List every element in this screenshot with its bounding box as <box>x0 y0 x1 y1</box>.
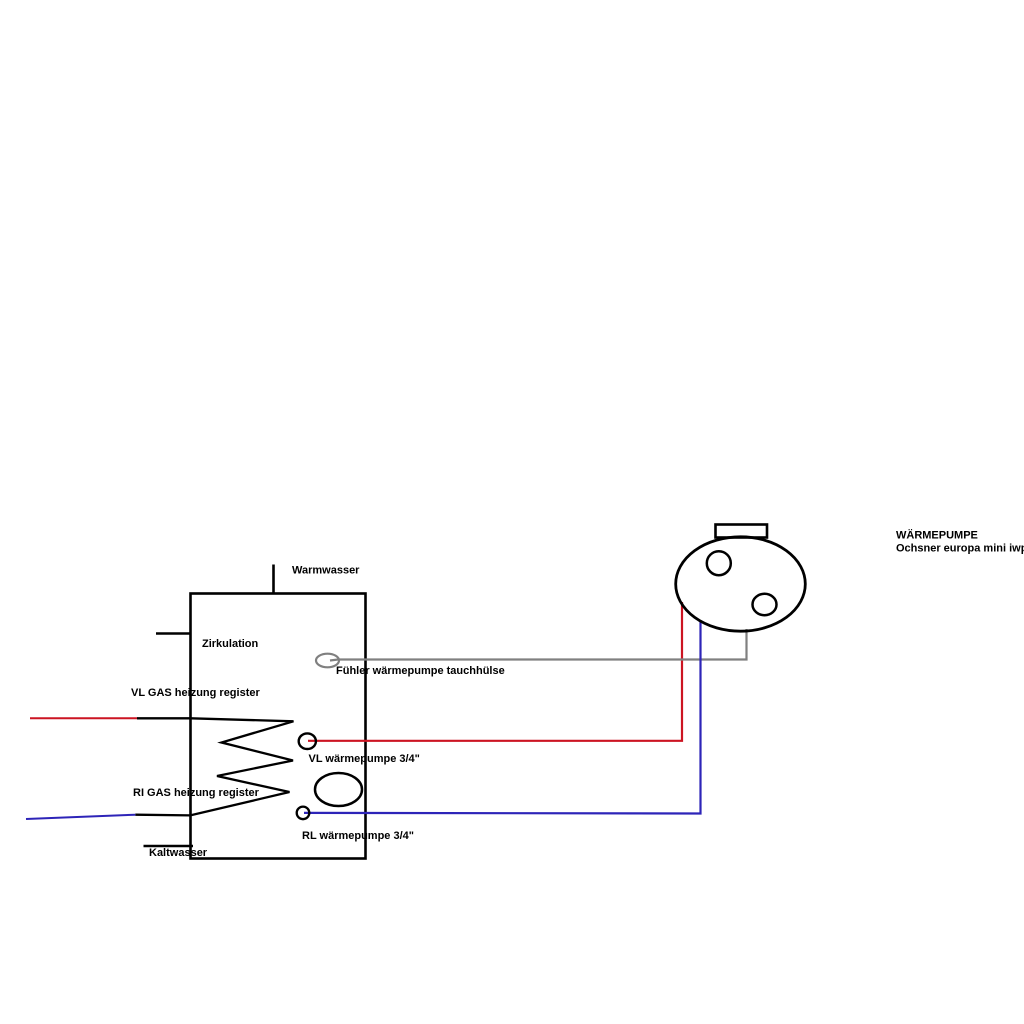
wire sensor gray <box>330 629 747 661</box>
svg-text:WÄRMEPUMPE: WÄRMEPUMPE <box>896 529 978 542</box>
svg-text:Ochsner europa mini iwp: Ochsner europa mini iwp <box>896 543 1024 555</box>
wire VL red to pump <box>308 602 682 741</box>
pump porthole upper-left <box>707 551 731 575</box>
wire RI GAS blue return <box>26 815 135 819</box>
wire Zirkulation stub <box>156 632 191 635</box>
svg-text:RL wärmepumpe 3/4": RL wärmepumpe 3/4" <box>302 830 414 842</box>
svg-text:Kaltwasser: Kaltwasser <box>149 847 208 859</box>
svg-text:VL GAS heizung register: VL GAS heizung register <box>131 687 260 699</box>
wire RL blue to pump <box>304 620 701 814</box>
svg-text:Warmwasser: Warmwasser <box>292 565 360 577</box>
tank (storage cylinder) <box>191 594 366 859</box>
svg-text:RI GAS heizung register: RI GAS heizung register <box>133 787 260 799</box>
wire VL GAS red supply <box>30 717 138 719</box>
svg-text:Zirkulation: Zirkulation <box>202 638 259 650</box>
heating coil register zigzag <box>135 718 293 815</box>
flange ellipse on tank <box>315 773 362 806</box>
heat pump body ellipse <box>676 537 806 631</box>
heat pump top connector rect <box>716 525 768 538</box>
svg-text:Fühler wärmepumpe tauchhülse: Fühler wärmepumpe tauchhülse <box>336 665 505 677</box>
wire Kaltwasser stub <box>144 845 194 848</box>
port circle VL waermepumpe <box>299 733 316 749</box>
sensor pocket ellipse (Tauchhuelse) <box>316 654 339 668</box>
port circle RL waermepumpe <box>297 807 310 820</box>
wire Warmwasser stub <box>272 565 275 595</box>
pump porthole lower-right <box>753 594 777 615</box>
svg-text:VL wärmepumpe 3/4": VL wärmepumpe 3/4" <box>309 753 420 765</box>
